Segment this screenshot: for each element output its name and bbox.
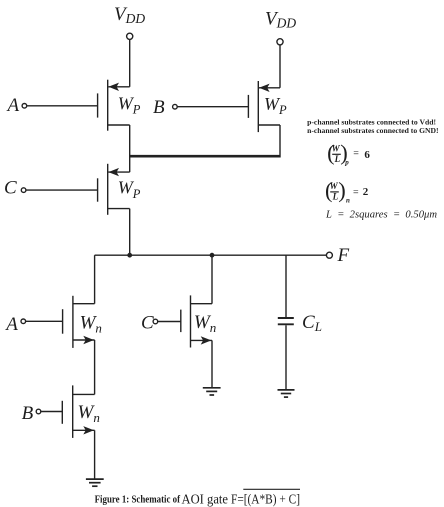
ground below NMOS C	[203, 388, 221, 395]
svg-text:F: F	[337, 245, 350, 266]
wire input B to NMOS B gate	[41, 411, 63, 413]
wire VDD right to PMOS B source	[279, 45, 281, 88]
svg-text:n-channel substrates connected: n-channel substrates connected to GND!	[307, 126, 439, 135]
formula (W/L)p = 6	[327, 140, 370, 167]
svg-text:Wn: Wn	[194, 312, 216, 335]
transistor NMOS A (Wn, input A)	[63, 296, 95, 348]
wire output rail to NMOS A drain	[94, 255, 96, 304]
transistor PMOS B (Wp, input B)	[248, 81, 280, 132]
svg-text:p: p	[344, 159, 349, 167]
wire input A to PMOS A gate	[27, 105, 98, 107]
svg-text:C: C	[141, 312, 154, 333]
transistor PMOS A (Wp, input A)	[98, 80, 130, 131]
svg-text:Figure 1: Schematic of: Figure 1: Schematic of	[95, 495, 181, 506]
svg-text:Wn: Wn	[80, 312, 102, 335]
ground below NMOS B	[86, 479, 104, 486]
svg-text:Wn: Wn	[78, 402, 100, 425]
svg-text:A: A	[6, 95, 20, 116]
junction node at NMOS C drain	[210, 253, 215, 258]
svg-text:AOI gate: AOI gate	[182, 491, 229, 506]
wire input C to PMOS C gate	[26, 189, 98, 191]
svg-text:6: 6	[364, 149, 370, 161]
svg-text:n: n	[346, 196, 350, 204]
wire PMOS A drain to PMOS C source	[129, 125, 131, 172]
wire VDD left to PMOS A source	[129, 39, 131, 86]
terminal output F	[326, 252, 332, 258]
svg-text:C: C	[4, 178, 17, 199]
wire input A to NMOS A gate	[26, 320, 63, 322]
transistor NMOS B (Wn, input B)	[62, 385, 94, 438]
wire NMOS A source to NMOS B drain	[94, 340, 96, 394]
wire input B to PMOS B gate	[177, 106, 248, 108]
svg-text:B: B	[153, 97, 165, 118]
terminal input A bottom	[21, 319, 26, 324]
wire output rail to NMOS C drain	[211, 255, 213, 304]
svg-text:): )	[338, 177, 346, 202]
terminal input C top	[21, 188, 26, 193]
terminal VDD left	[127, 33, 133, 39]
wire PMOS C drain to output node	[129, 209, 131, 256]
terminal input C mid	[153, 319, 158, 324]
svg-text:WP: WP	[118, 93, 141, 116]
svg-text:VDD: VDD	[114, 4, 145, 26]
wire NMOS B source to ground	[94, 430, 96, 479]
svg-text:=: =	[353, 149, 359, 160]
terminal input A top	[22, 104, 27, 109]
formula (W/L)n = 2	[325, 177, 369, 204]
caption Figure 1	[95, 489, 300, 506]
svg-text:=: =	[353, 187, 359, 198]
wire capacitor CL to ground	[285, 325, 287, 390]
wire input C to NMOS C gate	[158, 321, 181, 323]
svg-text:F=[(A*B) + C]: F=[(A*B) + C]	[231, 491, 300, 506]
junction node at PMOS C drain	[127, 253, 132, 258]
wire output rail F	[95, 254, 327, 256]
svg-text:2: 2	[363, 186, 369, 198]
transistor PMOS C (Wp, input C)	[98, 164, 130, 215]
svg-text:WP: WP	[264, 94, 287, 117]
svg-text:A: A	[4, 314, 18, 335]
svg-text:VDD: VDD	[265, 8, 296, 30]
svg-text:CL: CL	[302, 312, 322, 334]
wire output rail to capacitor CL	[285, 255, 287, 317]
ground below capacitor CL	[278, 390, 295, 397]
wire PMOS B drain down to thick node wire	[279, 125, 281, 158]
terminal VDD right	[277, 39, 283, 45]
svg-text:W: W	[332, 144, 341, 154]
svg-text:WP: WP	[118, 178, 141, 201]
terminal input B top	[173, 104, 178, 109]
wire NMOS C source to ground	[211, 340, 213, 387]
wire node (thick) to PMOS B drain	[130, 155, 280, 158]
svg-text:L = 2squares = 0.50μm: L = 2squares = 0.50μm	[325, 208, 437, 220]
terminal input B bottom	[36, 409, 41, 414]
svg-text:B: B	[22, 403, 34, 424]
capacitor CL	[278, 318, 294, 324]
transistor NMOS C (Wn, input C)	[181, 295, 212, 347]
